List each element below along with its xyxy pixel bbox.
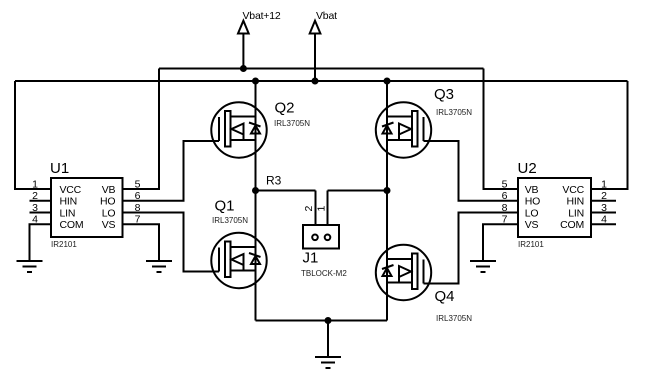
wire Vbat stem [314, 34, 316, 82]
wire U1 pin4 COM to ground [30, 224, 52, 261]
node left phase (R3) [252, 187, 259, 194]
connector J1 TBLOCK-M2 [301, 225, 347, 278]
junction Vbat+12 on top rail [240, 65, 247, 72]
transistor Q3 (IRL3705N, high side right, mirrored) [376, 86, 472, 158]
svg-text:COM: COM [60, 219, 84, 231]
svg-text:VS: VS [102, 219, 116, 231]
svg-text:IR2101: IR2101 [518, 240, 544, 249]
wire J1 pin 1 drop [327, 191, 329, 235]
wire U2 pin2 HIN stub [591, 200, 616, 202]
junction left drain on Vbat rail [252, 78, 259, 85]
wire U1 pin8 LO to Q1 gate [123, 213, 220, 272]
svg-text:LO: LO [525, 208, 539, 220]
wire U2 pin3 LIN stub [591, 212, 616, 214]
wire J1 pin 2 drop [315, 191, 317, 235]
wire U1 pin2 HIN stub [30, 200, 52, 202]
svg-text:VB: VB [102, 184, 116, 196]
svg-text:VB: VB [525, 184, 539, 196]
wire Vbat+12 stem [242, 34, 244, 69]
svg-text:COM: COM [560, 219, 584, 231]
svg-text:VCC: VCC [562, 184, 584, 196]
svg-text:U2: U2 [518, 160, 537, 177]
junction bottom rail to ground [325, 317, 332, 324]
wire U1 pin7 VS to ground [123, 224, 160, 261]
transistor Q2 (IRL3705N, high side left) [211, 100, 310, 158]
svg-text:IR2101: IR2101 [51, 240, 77, 249]
svg-text:Q3: Q3 [434, 86, 454, 103]
wire right phase node to J1 pin 1 [328, 190, 388, 192]
ground (U1 COM) [17, 261, 43, 272]
wire left phase node to J1 pin 2 [256, 190, 316, 192]
transistor Q4 (IRL3705N, low side right, mirrored) [376, 245, 472, 323]
wire U2 pin1 VCC to Vbat rail [591, 81, 628, 189]
wire U2 pin4 COM stub [591, 223, 616, 225]
svg-text:IRL3705N: IRL3705N [212, 216, 248, 225]
svg-text:J1: J1 [303, 250, 319, 267]
svg-text:IRL3705N: IRL3705N [436, 108, 472, 117]
svg-text:TBLOCK-M2: TBLOCK-M2 [301, 269, 347, 278]
wire right bridge vertical (Q3 drain to Q4 source) [386, 81, 388, 321]
power flag Vbat [310, 10, 337, 34]
svg-text:HIN: HIN [567, 196, 584, 208]
svg-text:HO: HO [100, 196, 115, 208]
wire U1 pin5 VB to top rail [123, 69, 160, 190]
wire U2 pin6 HO to Q3 gate [424, 141, 519, 201]
svg-text:HIN: HIN [60, 196, 77, 208]
svg-text:VCC: VCC [60, 184, 82, 196]
wire VB rail (top rail) [159, 68, 484, 70]
wire bottom rail [256, 320, 388, 322]
wire U1 pin3 LIN stub [30, 212, 52, 214]
wire U2 pin7 VS to ground [483, 224, 518, 261]
svg-text:HO: HO [525, 196, 540, 208]
svg-text:Q2: Q2 [275, 100, 295, 117]
svg-text:IRL3705N: IRL3705N [436, 314, 472, 323]
ground (U1 VS) [146, 261, 172, 272]
wire bottom rail ground drop [327, 321, 329, 358]
IC U1 IR2101 body [50, 160, 123, 249]
svg-text:Vbat+12: Vbat+12 [243, 10, 281, 22]
ground (bottom rail) [315, 357, 341, 368]
junction right drain on Vbat rail [384, 78, 391, 85]
svg-text:LIN: LIN [60, 208, 76, 220]
ground (U2 VS) [470, 261, 496, 272]
svg-text:VS: VS [525, 219, 539, 231]
wire U2 pin5 VB to top rail [484, 69, 519, 190]
svg-text:Q1: Q1 [215, 198, 235, 215]
junction Vbat on second rail [312, 78, 319, 85]
svg-text:LO: LO [102, 208, 116, 220]
svg-text:U1: U1 [50, 160, 69, 177]
svg-text:2: 2 [303, 206, 315, 212]
wire U2 pin8 LO to Q4 gate [424, 213, 519, 284]
svg-text:IRL3705N: IRL3705N [274, 119, 310, 128]
wire U1 pin1 VCC to Vbat rail [15, 81, 51, 189]
power flag Vbat+12 [238, 10, 281, 34]
wire U1 pin6 HO to Q2 gate [123, 141, 220, 201]
svg-text:Q4: Q4 [435, 288, 455, 305]
transistor Q1 (IRL3705N, low side left) [211, 198, 266, 289]
svg-text:1: 1 [315, 206, 327, 212]
svg-text:R3: R3 [266, 174, 282, 188]
node right phase [384, 187, 391, 194]
IC U2 IR2101 body [518, 160, 592, 249]
svg-text:LIN: LIN [568, 208, 584, 220]
wire left bridge vertical (Q2 drain to Q1 source) [255, 81, 257, 321]
svg-text:Vbat: Vbat [316, 10, 337, 22]
wire Vbat rail (second rail) [15, 80, 628, 82]
